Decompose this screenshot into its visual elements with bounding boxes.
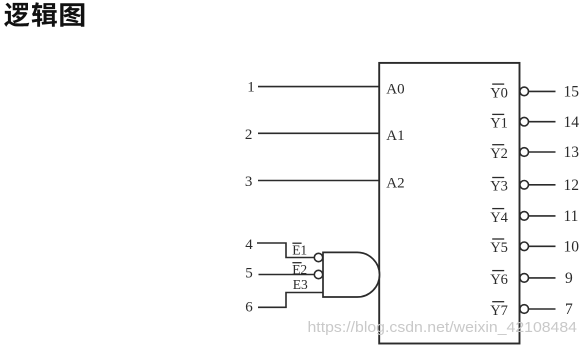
svg-text:Y1: Y1	[490, 116, 508, 132]
svg-text:4: 4	[245, 237, 253, 253]
output Y7 bubble	[520, 305, 529, 314]
svg-text:6: 6	[245, 300, 253, 316]
svg-text:A2: A2	[386, 175, 404, 191]
svg-text:Y2: Y2	[490, 146, 508, 162]
wire Y0 to pin 15	[529, 90, 556, 92]
output Y6 bubble	[520, 274, 529, 283]
svg-text:5: 5	[245, 266, 253, 282]
svg-text:Y3: Y3	[490, 179, 508, 195]
svg-text:https://blog.csdn.net/weixin_4: https://blog.csdn.net/weixin_42108484	[308, 320, 578, 336]
svg-text:9: 9	[565, 270, 573, 287]
wire Y3 to pin 12	[529, 184, 556, 186]
title 逻辑图	[4, 2, 84, 27]
svg-text:3: 3	[245, 174, 253, 190]
wire Y5 to pin 10	[529, 245, 556, 247]
wire Y6 to pin 9	[529, 277, 556, 279]
svg-text:12: 12	[564, 177, 580, 194]
wire pin2 to A1	[258, 132, 379, 134]
svg-text:Y4: Y4	[490, 210, 508, 226]
output Y3 bubble	[520, 181, 529, 190]
svg-text:E2: E2	[292, 262, 307, 277]
svg-text:2: 2	[245, 127, 253, 143]
wire Y4 to pin 11	[529, 215, 556, 217]
output Y0 bubble	[520, 87, 529, 96]
svg-text:15: 15	[564, 84, 580, 101]
svg-text:Y5: Y5	[490, 240, 508, 256]
inverter bubble E2	[314, 270, 322, 278]
wire pin6 step to E3	[258, 293, 323, 308]
inverter bubble E1	[314, 253, 322, 261]
output Y1 bubble	[520, 117, 529, 126]
wire Y2 to pin 13	[529, 151, 556, 153]
svg-text:Y0: Y0	[490, 85, 508, 101]
wire Y1 to pin 14	[529, 121, 556, 123]
svg-text:11: 11	[564, 208, 579, 225]
decoder IC box U1	[379, 63, 519, 344]
output Y4 bubble	[520, 212, 529, 221]
svg-text:13: 13	[564, 144, 580, 161]
wire pin5 to E2	[259, 274, 315, 276]
output Y5 bubble	[520, 242, 529, 251]
svg-text:Y6: Y6	[490, 272, 508, 288]
svg-text:A1: A1	[386, 128, 404, 144]
output Y2 bubble	[520, 148, 529, 157]
svg-text:Y7: Y7	[490, 303, 508, 319]
svg-text:7: 7	[565, 301, 573, 318]
wire pin4 step to E1	[257, 243, 314, 258]
AND gate G1 (enable)	[323, 252, 380, 297]
wire pin1 to A0	[258, 86, 379, 88]
svg-text:14: 14	[564, 114, 580, 131]
svg-text:E1: E1	[292, 242, 307, 257]
svg-text:A0: A0	[386, 82, 404, 98]
svg-text:E3: E3	[293, 277, 308, 292]
svg-text:1: 1	[247, 80, 255, 96]
wire pin3 to A2	[258, 180, 379, 182]
wire Y7 to pin 7	[529, 308, 556, 310]
svg-text:10: 10	[564, 239, 580, 256]
